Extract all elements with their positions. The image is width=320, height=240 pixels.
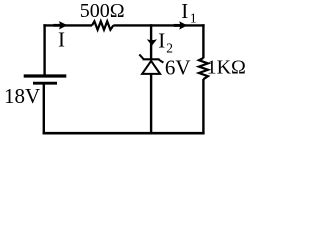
wire top-right segment — [113, 24, 204, 26]
wire left upper — [43, 24, 45, 75]
arrow current I — [54, 24, 62, 27]
wire zener branch lower — [150, 74, 152, 134]
svg-text:2: 2 — [166, 41, 173, 56]
svg-text:I: I — [158, 28, 165, 52]
battery B1 plate long — [24, 74, 67, 77]
svg-text:500Ω: 500Ω — [80, 0, 125, 22]
wire right upper — [202, 24, 204, 58]
svg-text:I: I — [58, 27, 65, 51]
svg-text:1: 1 — [190, 10, 197, 25]
zener D1 right wing — [159, 60, 164, 63]
zener D1 left wing — [139, 54, 143, 59]
svg-text:6V: 6V — [165, 55, 191, 79]
wire top-left segment — [43, 24, 92, 26]
resistor R1 500ohm zigzag — [92, 21, 113, 30]
svg-text:1KΩ: 1KΩ — [207, 57, 246, 79]
wire bottom — [43, 132, 205, 135]
zener D1 cathode bar — [143, 58, 160, 60]
wire right lower — [202, 79, 204, 134]
arrow current I1 — [174, 24, 181, 27]
resistor R2 1Kohm zigzag — [199, 58, 208, 79]
wire zener branch upper — [150, 24, 152, 59]
svg-text:I: I — [181, 0, 188, 23]
battery B1 plate short — [33, 82, 57, 85]
arrow current I2 — [147, 39, 157, 46]
svg-text:18V: 18V — [4, 84, 40, 108]
zener D1 triangle anode — [142, 61, 160, 74]
wire left lower — [43, 83, 45, 134]
